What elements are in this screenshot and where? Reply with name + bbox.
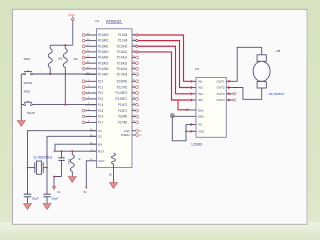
svg-text:10k: 10k	[73, 57, 78, 61]
node crystal left junction	[27, 167, 29, 169]
pin P1.5 (pin 6) left	[82, 109, 103, 113]
svg-text:P0.1/AD1: P0.1/AD1	[98, 39, 109, 43]
svg-text:P3.0/RXD: P3.0/RXD	[117, 79, 128, 83]
node R2 rail junction	[64, 44, 66, 46]
ground left rail	[17, 121, 25, 127]
power 5v flag bottom left	[52, 187, 61, 194]
svg-text:EN1: EN1	[198, 108, 204, 112]
pin P2.1/A9 (pin 22) right	[118, 39, 136, 43]
pin XTAL2 (pin 18)	[90, 135, 102, 139]
node R2/SW2 junction	[64, 104, 66, 106]
switch SW2	[21, 90, 96, 106]
pin IN2	[190, 86, 204, 90]
node VSS junction	[185, 130, 187, 132]
svg-text:10k: 10k	[58, 57, 63, 61]
node crystal right junction	[46, 167, 48, 169]
capacitor C2 30pF	[43, 194, 58, 203]
svg-text:P2.4/A12: P2.4/A12	[117, 56, 128, 60]
svg-text:IN3: IN3	[198, 92, 203, 96]
pin OUT4	[216, 98, 235, 102]
svg-text:P0.7/AD7: P0.7/AD7	[98, 73, 109, 77]
svg-text:AT89c52: AT89c52	[106, 18, 121, 23]
pin P1.4 (pin 5) left	[85, 103, 103, 107]
svg-text:VSS: VSS	[198, 130, 204, 134]
svg-text:IN4: IN4	[198, 98, 203, 102]
pin P3.6/WR (pin 16) right	[118, 115, 138, 119]
svg-text:P2.5/A13: P2.5/A13	[117, 61, 128, 65]
pin P0.1/AD1 (pin 38) left	[82, 39, 108, 43]
pin P0.3/AD3 (pin 36) left	[82, 50, 108, 54]
wire OUT1 to motor top	[233, 47, 262, 81]
pin P0.4/AD4 (pin 35) left	[82, 56, 108, 60]
svg-text:P0.2/AD2: P0.2/AD2	[98, 44, 109, 48]
node VCC 5v junction	[85, 187, 87, 189]
svg-text:P1.3: P1.3	[98, 97, 103, 101]
wire EA	[55, 144, 97, 151]
svg-text:P0.3/AD3: P0.3/AD3	[98, 50, 109, 54]
svg-text:P3.2/INT0: P3.2/INT0	[116, 91, 128, 95]
wire VCC rail	[50, 44, 73, 46]
svg-text:PSEN: PSEN	[121, 133, 129, 137]
svg-text:P1.2: P1.2	[98, 91, 103, 95]
wire MCU GND down	[113, 164, 115, 183]
svg-text:SW-PB: SW-PB	[27, 112, 35, 115]
svg-text:P2.3/A11: P2.3/A11	[117, 50, 128, 54]
svg-text:SW1: SW1	[24, 57, 31, 61]
pin P2.5/A13 (pin 26) right	[117, 61, 139, 65]
pin P1.7 (pin 8) left	[82, 120, 103, 124]
label SW-PB 2	[27, 112, 35, 115]
pin VS	[190, 123, 203, 127]
svg-text:P1.6: P1.6	[98, 115, 103, 119]
svg-text:SW2: SW2	[24, 90, 31, 94]
pin XTAL1 (pin 19)	[90, 129, 102, 133]
pin IN1	[190, 79, 204, 83]
pin OUT1	[216, 79, 233, 83]
pin IN4	[190, 98, 204, 102]
svg-text:P2.1/A9: P2.1/A9	[118, 39, 127, 43]
crystal X1 11.0592MHz	[28, 155, 53, 174]
svg-text:P3.6/WR: P3.6/WR	[118, 115, 128, 119]
svg-text:EN2: EN2	[198, 115, 204, 119]
svg-text:P0.4/AD4: P0.4/AD4	[98, 56, 109, 60]
svg-text:P3.3/INT1: P3.3/INT1	[116, 97, 128, 101]
svg-text:OUT4: OUT4	[216, 98, 224, 102]
node C3 bend junction	[53, 176, 55, 178]
ground under R3	[68, 177, 76, 183]
wire red bus P2.0 to IN1	[136, 34, 190, 81]
pin P1.3 (pin 4) left	[82, 97, 103, 101]
label SW-PB	[24, 81, 33, 85]
wire EN1 branch from IN4 line	[178, 100, 190, 111]
pin P3.2/INT0 (pin 12) right	[116, 91, 139, 95]
svg-text:30pF: 30pF	[32, 197, 39, 201]
svg-text:P2.7/A15: P2.7/A15	[117, 73, 128, 77]
svg-text:X2: X2	[98, 135, 102, 139]
svg-text:SW-PB: SW-PB	[24, 81, 33, 85]
label motor value	[276, 49, 281, 53]
pin EN1	[190, 108, 205, 112]
pin EA (pin 31)	[90, 142, 103, 146]
label dc motor	[269, 91, 285, 96]
pin OUT2	[216, 86, 233, 90]
svg-text:10uF: 10uF	[67, 159, 70, 165]
svg-text:U1: U1	[95, 19, 99, 23]
svg-text:+88: +88	[276, 49, 281, 53]
resistor R3 1k	[70, 151, 80, 176]
power 5v flag under VCC pin	[84, 190, 88, 194]
svg-text:L293D: L293D	[192, 142, 203, 146]
svg-text:P3.1/TXD: P3.1/TXD	[117, 85, 128, 89]
pin P2.6/A14 (pin 27) right	[117, 67, 139, 71]
pin GND (pin 20) vertical squiggle	[109, 153, 115, 177]
IC U1 AT89c52 microcontroller body	[97, 29, 133, 168]
pin EN2	[190, 115, 205, 119]
svg-text:P1.0: P1.0	[98, 79, 103, 83]
svg-text:U3: U3	[195, 67, 199, 71]
wire VCC pin to 5v	[86, 161, 90, 188]
switch SW1	[21, 57, 96, 75]
svg-text:OUT2: OUT2	[216, 86, 224, 90]
pin IN3	[190, 92, 204, 96]
svg-text:RST: RST	[98, 149, 104, 153]
value label AT89c52	[106, 18, 123, 23]
pin P2.4/A12 (pin 25) right	[117, 56, 139, 60]
ground under C2	[43, 204, 51, 210]
pin P1.0 (pin 1) left	[82, 79, 103, 83]
capacitor C1 30pF	[24, 194, 39, 203]
wire C3 to 5v	[54, 177, 62, 187]
node R3 top junction	[71, 150, 73, 152]
pin P0.0/AD0 (pin 39) left	[82, 33, 108, 37]
resistor R2 10k	[63, 45, 78, 104]
resistor R1 10k	[48, 45, 63, 74]
pin P1.6 (pin 7) left	[82, 115, 103, 119]
power ball flag at EN2	[170, 114, 174, 118]
pin VSS	[190, 130, 205, 134]
label U3	[195, 67, 199, 71]
svg-text:OUT3: OUT3	[216, 92, 224, 96]
pin P1.2 (pin 3) left	[82, 91, 103, 95]
pin P2.2/A10 (pin 23) right	[117, 44, 136, 48]
pin P1.1 (pin 2) left	[82, 85, 103, 89]
svg-text:30pF: 30pF	[51, 197, 58, 201]
pin VCC (pin 40)	[90, 159, 105, 163]
svg-text:11.0592MHz: 11.0592MHz	[33, 155, 52, 159]
svg-text:P0.6/AD6: P0.6/AD6	[98, 67, 109, 71]
wire OUT2 to motor bottom	[233, 88, 262, 100]
svg-text:P2.2/A10: P2.2/A10	[117, 44, 128, 48]
value label L293D	[192, 142, 203, 146]
label U1	[95, 19, 99, 23]
pin RST (pin 9)	[90, 149, 104, 153]
pin P2.3/A11 (pin 24) right	[117, 50, 136, 54]
svg-text:VS: VS	[198, 123, 202, 127]
pin P2.7/A15 (pin 28) right	[117, 73, 139, 77]
svg-text:P2.0/A8: P2.0/A8	[118, 33, 127, 37]
wire red bus P2.3 to IN4	[136, 51, 190, 100]
svg-text:P0.5/AD5: P0.5/AD5	[98, 61, 109, 65]
wire left rail	[20, 74, 22, 121]
wire red bus P2.2 to IN3	[136, 45, 190, 94]
wire 5v to VS VSS	[172, 116, 189, 141]
ground under MCU	[110, 183, 118, 189]
pin P3.4/T0 (pin 14) right	[118, 103, 138, 107]
power VCC symbol	[69, 13, 76, 45]
capacitor C3 10uF	[58, 151, 70, 176]
wire XTAL1	[28, 131, 97, 195]
pin P3.1/TXD (pin 11) right	[117, 85, 139, 89]
wire red bus P2.1 to IN2	[136, 40, 190, 88]
svg-text:IN2: IN2	[198, 86, 203, 90]
svg-text:P1.4: P1.4	[98, 103, 103, 107]
pin P0.7/AD7 (pin 32) left	[85, 73, 109, 77]
svg-text:P1.1: P1.1	[98, 85, 103, 89]
wire RST node	[54, 150, 97, 152]
svg-text:P3.4/T0: P3.4/T0	[118, 103, 127, 107]
pin P2.0/A8 (pin 21) right	[118, 33, 136, 37]
IC U3 L293D motor driver body	[196, 78, 226, 138]
svg-text:VCC: VCC	[69, 13, 76, 17]
wire XTAL2	[47, 136, 97, 194]
node R1/SW1 junction	[49, 73, 51, 75]
pin PSEN (pin 29)	[121, 133, 142, 137]
pin P3.7/RD (pin 17) right	[118, 120, 138, 124]
svg-text:VCC: VCC	[98, 159, 105, 163]
pin P3.0/RXD (pin 10) right	[117, 79, 139, 83]
svg-text:X1: X1	[98, 129, 102, 133]
wire EN2 to 5v	[173, 115, 190, 117]
pin ALE/PROG (pin 30)	[124, 129, 143, 133]
svg-text:P3.7/RD: P3.7/RD	[118, 120, 128, 124]
pin P0.6/AD6 (pin 33) left	[82, 67, 108, 71]
svg-text:P2.6/A14: P2.6/A14	[117, 67, 128, 71]
pin P0.5/AD5 (pin 34) left	[82, 61, 108, 65]
node C3 top junction	[61, 150, 63, 152]
pin OUT3	[216, 92, 235, 96]
svg-text:OUT1: OUT1	[216, 79, 224, 83]
ground under C1	[24, 204, 32, 210]
svg-text:P1.5: P1.5	[98, 109, 103, 113]
svg-text:IN1: IN1	[198, 79, 203, 83]
svg-text:dc motor: dc motor	[269, 91, 285, 96]
svg-text:P0.0/AD0: P0.0/AD0	[98, 33, 109, 37]
pin P3.5/T1 (pin 15) right	[118, 109, 138, 113]
pin P0.2/AD2 (pin 37) left	[82, 44, 108, 48]
motor dc motor	[253, 55, 270, 88]
svg-text:P1.7: P1.7	[98, 120, 103, 124]
pin P3.3/INT1 (pin 13) right	[116, 97, 139, 101]
svg-text:P3.5/T1: P3.5/T1	[118, 109, 127, 113]
